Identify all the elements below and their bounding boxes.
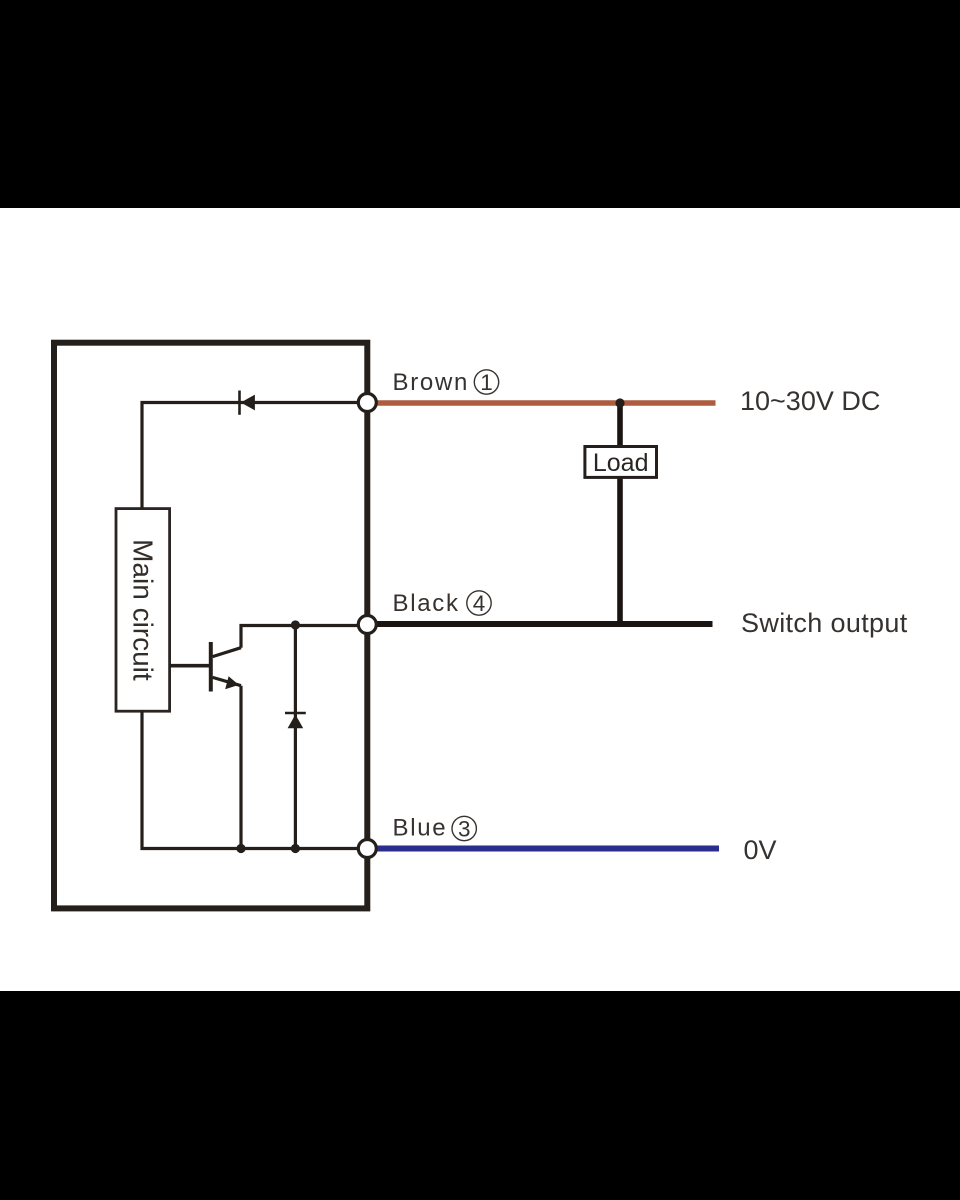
wire: collector to black terminal: [241, 626, 367, 648]
terminal 3 (blue): [358, 840, 376, 858]
svg-text:0V: 0V: [744, 835, 777, 865]
junction: load / supply wire: [615, 398, 624, 407]
wire: load branch: [617, 403, 623, 624]
Main circuit block U1: [116, 509, 170, 712]
svg-text:Load: Load: [593, 449, 649, 477]
wire: main circuit top to brown terminal: [142, 403, 367, 509]
wire: main circuit bottom to blue terminal: [142, 711, 367, 848]
svg-text:10~30V DC: 10~30V DC: [740, 386, 880, 416]
svg-text:3: 3: [458, 817, 471, 842]
load box: [585, 447, 657, 478]
brown supply wire: [373, 400, 716, 406]
label: Blue 3: [393, 815, 477, 842]
label: Brown 1: [393, 369, 499, 396]
wire: base from main circuit: [170, 664, 211, 668]
wire: flyback diode branch: [294, 625, 297, 849]
svg-text:Main circuit: Main circuit: [127, 539, 158, 681]
wire: emitter down to 0V rail: [239, 686, 242, 849]
svg-text:Black: Black: [393, 590, 460, 617]
diode D2 (flyback): [285, 713, 306, 728]
svg-text:4: 4: [473, 591, 486, 616]
transistor Q1 (NPN output): [211, 642, 241, 692]
terminal 1 (brown): [358, 394, 376, 412]
junction: emitter / 0V rail: [236, 844, 245, 853]
svg-text:Brown: Brown: [393, 369, 470, 396]
diode D1 (reverse-polarity protection): [240, 391, 255, 415]
junction: collector / flyback diode: [291, 620, 300, 629]
terminal 4 (black): [358, 616, 376, 634]
svg-text:Switch output: Switch output: [741, 608, 908, 638]
junction: flyback diode / 0V rail: [291, 844, 300, 853]
label: Black 4: [393, 590, 492, 617]
svg-text:Blue: Blue: [393, 815, 448, 842]
svg-text:1: 1: [480, 370, 493, 395]
blue 0V wire: [373, 846, 719, 852]
black switch output wire: [373, 621, 713, 627]
sensor body box: [54, 343, 367, 909]
